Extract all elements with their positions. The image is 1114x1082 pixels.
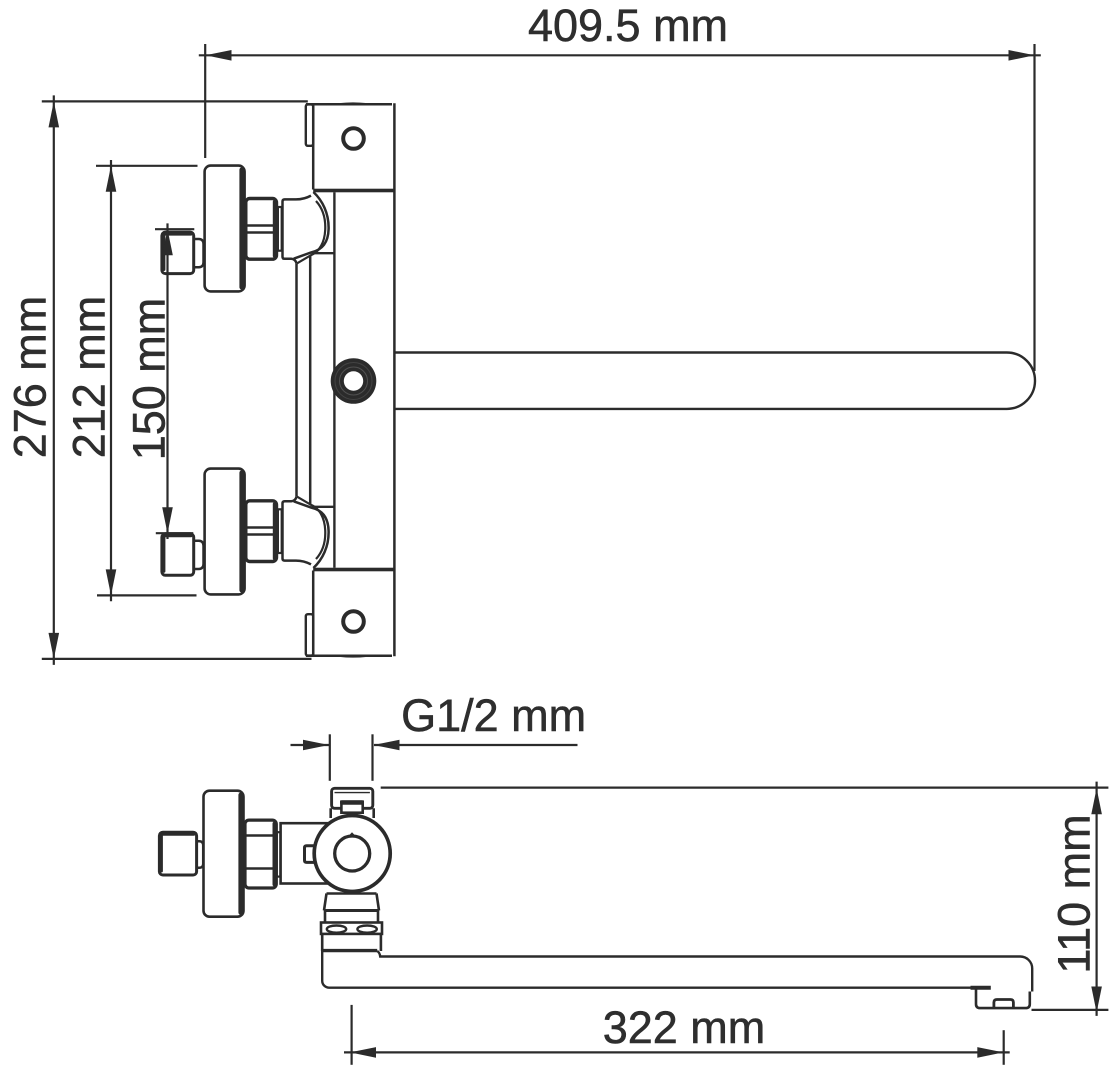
eccentric neck: [194, 239, 204, 267]
arrow 322 left: [350, 1047, 376, 1058]
aerator housing: [976, 988, 1030, 1008]
arrow 409.5 left: [206, 50, 232, 61]
svg-text:G1/2 mm: G1/2 mm: [401, 690, 586, 741]
spout riser band 2 line: [324, 909, 379, 912]
arrow G12 left: [303, 740, 329, 751]
dim 276 ext bottom: [42, 658, 312, 660]
spout tube (plan, L-shape): [322, 951, 1032, 992]
svg-text:212 mm: 212 mm: [64, 296, 115, 459]
svg-text:110 mm: 110 mm: [1049, 814, 1100, 973]
svg-text:322 mm: 322 mm: [603, 1002, 766, 1053]
tab thick bottom line: [313, 189, 394, 193]
shower outlet cap G1/2: [332, 788, 373, 808]
dim 322 ext left: [351, 1005, 353, 1065]
dim 110 line: [1095, 782, 1097, 1016]
dim 110 ref top: [381, 786, 1109, 788]
inner boss line top: [312, 252, 335, 254]
eccentric neck (plan): [196, 841, 203, 868]
svg-text:409.5 mm: 409.5 mm: [528, 0, 728, 51]
nut facet line 2 (plan): [246, 867, 276, 870]
square left shade (plan): [160, 834, 163, 873]
diverter knob (filled ring): [331, 358, 377, 404]
body waist inner edge: [309, 256, 312, 504]
bottom inlet connection (mirror): [205, 469, 329, 595]
inner boss line bottom: [312, 506, 335, 508]
aerator spray face: [994, 1000, 1014, 1009]
inlet nut: [246, 199, 277, 260]
svg-text:276 mm: 276 mm: [5, 296, 56, 459]
spout (front view, stadium shape): [394, 353, 1035, 409]
nut facet line 2: [247, 231, 276, 234]
washer: [278, 207, 282, 251]
dim G12 leader left: [291, 744, 330, 746]
arrow 409.5 right: [1009, 50, 1035, 61]
top eccentric square connector: [162, 232, 204, 274]
spout collar: [322, 934, 381, 951]
dim 150 ext top: [155, 228, 194, 230]
top inlet connection (flange, nut, washer, elbow): [205, 166, 329, 292]
spout swivel nut: [321, 923, 382, 934]
dim 276 line: [53, 95, 55, 665]
dim 212 line: [110, 160, 112, 601]
outlet key block: [341, 802, 362, 813]
dim 409.5 ext line left: [204, 44, 206, 158]
mounting tab top (with slot, hole, thick weld line): [306, 102, 395, 192]
square left shade: [162, 233, 165, 271]
dim 212 ext top: [96, 165, 198, 167]
spout collar bottom thick: [322, 949, 377, 952]
arrow 212 top: [106, 166, 117, 192]
square top shade: [163, 233, 192, 236]
wall flange (plan): [204, 791, 244, 917]
arrow 276 bottom: [49, 633, 60, 659]
arrow 212 bottom: [106, 569, 117, 595]
nut facet line 1: [247, 224, 276, 227]
elbow horn inner curve: [297, 201, 325, 263]
svg-text:150 mm: 150 mm: [124, 298, 175, 461]
elbow escutcheon box: [283, 196, 312, 264]
elbow horn outer curve: [294, 192, 329, 259]
dim 322 line: [344, 1051, 1010, 1053]
spout riser band 2 sides: [325, 911, 378, 923]
arrow 150 bottom: [162, 507, 173, 533]
slot notch: [306, 104, 313, 145]
valve body circle (plan): [314, 816, 390, 892]
nut side shade: [273, 200, 277, 258]
wall flange: [205, 166, 245, 292]
square pipe end (plan): [159, 832, 196, 875]
arrow G12 right: [374, 740, 400, 751]
body waist outer edge: [295, 263, 298, 497]
mounting tab bottom (mirror): [306, 568, 395, 658]
dim 409.5 line: [199, 54, 1041, 56]
cartridge index notch: [350, 834, 355, 836]
dim 212 ext bottom: [97, 594, 197, 596]
faucet body right edge: [393, 103, 396, 656]
nut side shade (plan): [273, 822, 277, 887]
outlet key thick top: [340, 800, 364, 805]
cap side flares: [331, 808, 374, 818]
dim 110 ref bottom: [1032, 1009, 1109, 1011]
swivel nut hole right: [357, 926, 376, 933]
tab top bulge: [326, 102, 382, 105]
swivel nut hole left: [327, 926, 346, 933]
inner face plate edge: [333, 192, 335, 568]
dim 276 ext top: [42, 100, 308, 102]
dim 409.5 ext line right: [1033, 44, 1035, 371]
valve body block behind circle: [281, 823, 333, 883]
dim G12 ext left: [329, 734, 331, 781]
arrow 276 top: [49, 101, 60, 127]
dim 150 line: [166, 223, 168, 539]
arrow 150 top: [162, 229, 173, 255]
dim 322 ext right: [1003, 1030, 1005, 1065]
cap inner highlight: [335, 792, 370, 794]
cartridge circle: [335, 836, 370, 871]
dim 150 ext bottom: [156, 532, 194, 534]
washer (plan): [277, 832, 281, 876]
square pipe end: [162, 232, 194, 274]
mounting hole: [343, 128, 364, 149]
left index tab: [305, 846, 316, 863]
square top shade (plan): [161, 833, 195, 836]
arrow 322 right: [977, 1047, 1003, 1058]
aerator step lip: [971, 986, 991, 990]
flange side shade band: [239, 167, 244, 289]
inlet nut (plan): [245, 820, 276, 888]
dim G12 ext right: [371, 734, 373, 781]
nut facet line 1 (plan): [246, 834, 276, 837]
tab outline: [306, 104, 392, 189]
flange side shade band (plan): [238, 793, 243, 915]
arrow 110 bottom: [1091, 987, 1102, 1013]
bottom eccentric square connector: [162, 534, 204, 576]
spout riser band 1: [324, 894, 379, 911]
dim G12 leader right: [374, 744, 578, 746]
arrow 110 top: [1091, 788, 1102, 814]
